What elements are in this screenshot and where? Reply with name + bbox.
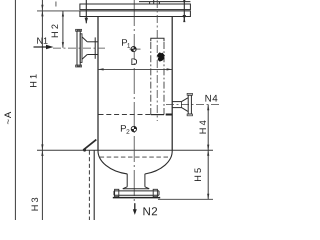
N4 flange cap bottom	[187, 114, 192, 116]
vessel centerline	[133, 0, 135, 203]
arrow H5 top	[207, 150, 209, 156]
internal pipe right edge dashed	[163, 42, 165, 115]
dimension line ~A (overall height)	[14, 0, 16, 220]
davit post c	[158, 2, 160, 5]
dimension line H2	[62, 11, 64, 48]
dimension line H5	[207, 150, 209, 199]
P1 circle	[131, 47, 136, 52]
svg-text:~A: ~A	[3, 111, 14, 124]
support leg outer edge	[93, 151, 95, 221]
davit bar above cover	[139, 1, 190, 3]
arrow D left	[98, 68, 104, 70]
dimension line H4	[207, 105, 209, 151]
dimension line H1	[41, 0, 43, 150]
N2 flare right	[145, 187, 149, 189]
elliptical head right arc	[145, 150, 172, 174]
N1 neck bottom	[87, 54, 98, 56]
svg-text:N1: N1	[36, 36, 48, 46]
arrow H1 top down	[41, 5, 43, 11]
weld blob on internal pipe	[157, 52, 165, 61]
arrow H2 top	[62, 11, 64, 17]
N4 flare bottom	[182, 108, 188, 112]
arrow H1 top up	[41, 11, 43, 17]
davit post b	[153, 0, 155, 4]
N2 neck left	[126, 174, 128, 187]
N1 flange disc	[77, 30, 80, 66]
N4 neck bottom	[172, 107, 181, 109]
N1 neck top	[87, 41, 98, 43]
N1 flange cap top	[76, 29, 82, 31]
P2 circle	[131, 126, 136, 131]
N4 weld line	[181, 102, 183, 108]
svg-text:H4: H4	[198, 118, 208, 134]
internal pipe left edge dashed	[150, 42, 152, 115]
bolt right	[183, 0, 185, 21]
svg-text:H5: H5	[193, 166, 203, 182]
extension line bottom tangent	[37, 149, 213, 151]
internal pipe bottom edge	[151, 114, 164, 116]
N2 hub line	[123, 188, 149, 190]
svg-text:H1: H1	[29, 72, 39, 88]
P1 tick	[130, 48, 141, 50]
davit post a	[149, 2, 151, 5]
flange thickness arrow bottom right	[183, 17, 185, 23]
shell left wall	[97, 17, 99, 151]
arrow H4 bottom	[207, 145, 209, 151]
top body flange	[80, 11, 190, 17]
extension line top (flange joint level)	[37, 10, 80, 12]
arrow H4 top	[207, 105, 209, 111]
N2 bolt left	[115, 189, 119, 196]
arrow N1 flow	[34, 46, 48, 48]
arrow D right	[167, 68, 173, 70]
extension line bottom right	[158, 198, 213, 200]
dimension line D	[98, 68, 172, 70]
svg-text:2: 2	[126, 129, 130, 136]
arrow H5 bottom	[207, 194, 209, 200]
svg-text:N2: N2	[142, 206, 158, 218]
internal pipe centerline	[156, 0, 158, 121]
support leg gusset	[83, 140, 96, 151]
faint top mark	[55, 2, 56, 7]
wall tick at level	[166, 114, 173, 116]
N1 raised face	[80, 34, 82, 63]
arrow H3 top up	[41, 150, 43, 156]
N2 flange bottom	[114, 194, 159, 196]
arrow H2 bottom	[62, 42, 64, 48]
N2 neck right	[144, 174, 146, 187]
N2 flange right edge	[158, 191, 160, 195]
svg-text:D: D	[131, 57, 138, 68]
N4 flare top	[182, 98, 188, 102]
N2 flange left edge	[113, 191, 115, 195]
liquid level dashed line upper	[99, 114, 151, 116]
N1 flange cap bottom	[76, 65, 82, 67]
top cover plate	[80, 4, 190, 10]
shell right wall	[171, 17, 173, 151]
N1 pad line	[94, 37, 96, 58]
svg-text:H3: H3	[30, 195, 40, 211]
support leg hidden edge	[88, 151, 90, 221]
liquid level dashed line lower	[100, 156, 171, 158]
elliptical head left arc	[98, 150, 127, 174]
N2 flare left	[123, 187, 127, 189]
N1 flare top	[82, 37, 87, 42]
N4 neck top	[172, 101, 181, 103]
nozzle N1 centerline	[53, 47, 105, 49]
dimension line H3	[41, 150, 43, 220]
svg-text:N4: N4	[205, 94, 219, 105]
svg-text:H2: H2	[50, 22, 60, 38]
nozzle N4 centerline	[166, 104, 220, 106]
N2 bolt right	[153, 189, 157, 196]
N1 flare bottom	[82, 55, 87, 60]
flange thickness arrow top right	[183, 0, 185, 4]
N4 flange cap top	[187, 93, 192, 95]
bolt left	[85, 0, 87, 23]
N2 flange top	[114, 190, 159, 192]
N4 flange disc	[188, 95, 191, 114]
N2 base thick line	[113, 197, 160, 199]
internal pipe top edge	[151, 38, 164, 41]
arrow H1 bottom down	[41, 144, 43, 150]
N2 flow arrow	[134, 203, 136, 210]
